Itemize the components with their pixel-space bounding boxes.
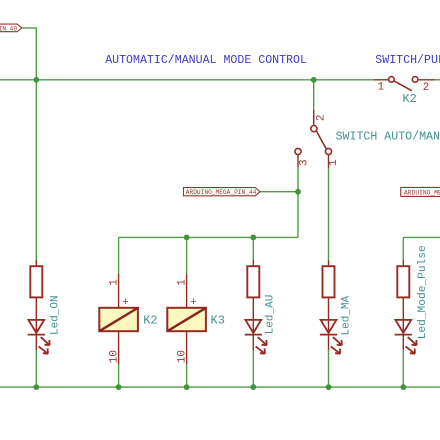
svg-text:Led_Mode_Pulse: Led_Mode_Pulse (417, 245, 429, 339)
svg-text:K3: K3 (211, 313, 225, 327)
svg-text:Led_MA: Led_MA (340, 295, 352, 335)
svg-text:SWITCH/PULSE MANUAL: SWITCH/PULSE MANUAL (375, 54, 440, 67)
svg-text:K2: K2 (143, 313, 157, 327)
svg-text:+: + (190, 297, 197, 309)
svg-text:ARDUINO_MEGA_PIN_44: ARDUINO_MEGA_PIN_44 (186, 189, 257, 196)
svg-text:10: 10 (177, 350, 189, 363)
svg-text:1: 1 (109, 279, 121, 286)
svg-text:Led_ON: Led_ON (49, 295, 61, 335)
svg-text:1: 1 (328, 159, 340, 166)
svg-text:AUTOMATIC/MANUAL MODE CONTROL: AUTOMATIC/MANUAL MODE CONTROL (105, 54, 307, 67)
svg-text:ARDUINO_MEGA_PIN_41: ARDUINO_MEGA_PIN_41 (404, 190, 440, 197)
svg-text:10: 10 (109, 350, 121, 363)
svg-text:1: 1 (177, 279, 189, 286)
svg-text:3: 3 (299, 159, 311, 166)
svg-text:2: 2 (315, 114, 327, 121)
svg-text:ARDUINO_MEGA_PIN_40: ARDUINO_MEGA_PIN_40 (0, 25, 17, 32)
svg-text:Led_AU: Led_AU (265, 295, 277, 335)
svg-text:SWITCH AUTO/MANUAL: SWITCH AUTO/MANUAL (336, 131, 440, 144)
svg-text:K2: K2 (402, 92, 416, 106)
svg-text:1: 1 (378, 81, 385, 93)
svg-text:2: 2 (423, 82, 430, 94)
svg-text:+: + (122, 297, 129, 309)
